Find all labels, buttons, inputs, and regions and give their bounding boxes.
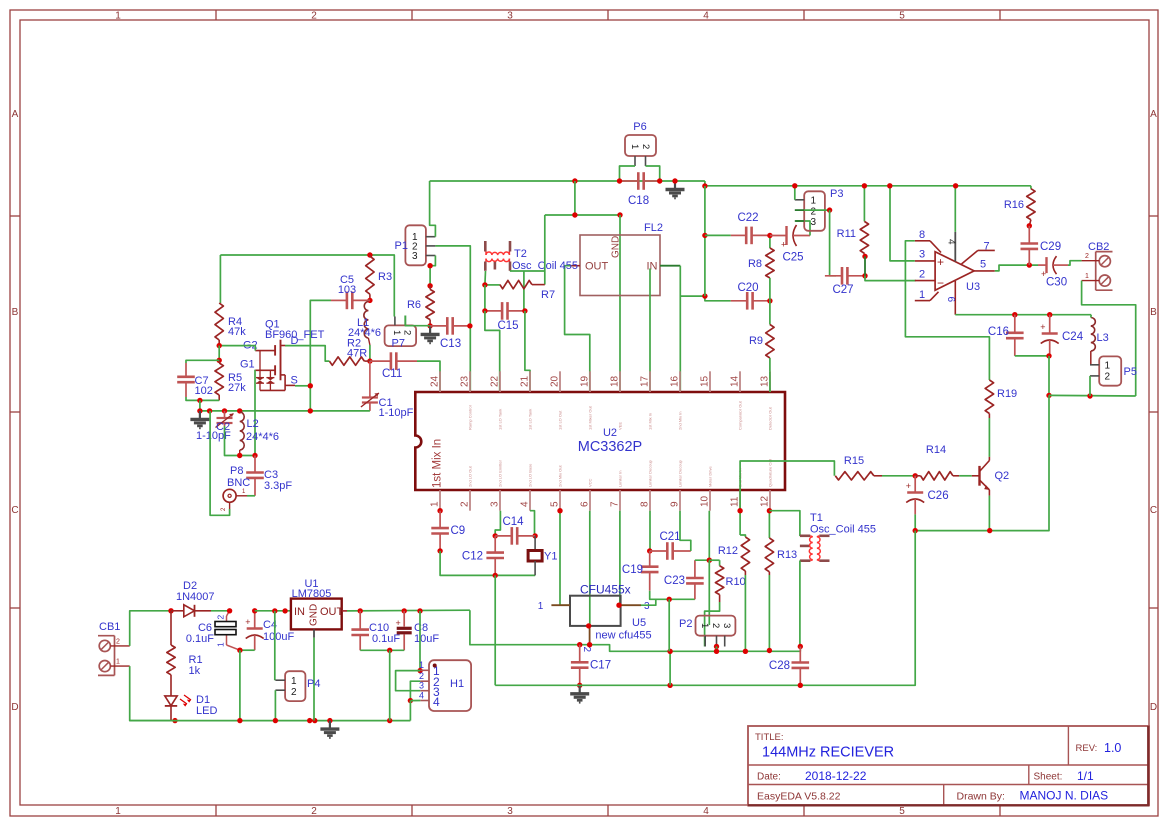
wire CB1 pin1 down to gnd rail [130, 666, 175, 721]
wire P8 shield loop [210, 411, 230, 515]
svg-text:U3: U3 [966, 281, 980, 293]
pin P1.1 [426, 236, 436, 238]
svg-text:3: 3 [412, 251, 418, 262]
wire pin6 to U5 pin2 [589, 511, 591, 626]
svg-text:1: 1 [538, 601, 544, 612]
svg-text:1st LO Tank: 1st LO Tank [498, 409, 503, 430]
svg-text:T1: T1 [810, 512, 823, 524]
resistor R19 [985, 380, 993, 414]
wire H1 gnd drop [409, 701, 411, 721]
junction C22 right / R8 top [767, 233, 772, 238]
filter U5 box [570, 596, 621, 626]
svg-text:2: 2 [291, 687, 297, 698]
svg-text:1: 1 [1105, 361, 1111, 372]
junction [572, 212, 577, 217]
svg-text:D: D [291, 335, 299, 347]
svg-text:20: 20 [550, 375, 561, 387]
pin P4.1 [275, 679, 285, 681]
wire R7 left to C15 left [484, 285, 486, 311]
wire R12 bottom [744, 575, 746, 651]
junction H1 pin1 [417, 668, 422, 673]
svg-text:4: 4 [946, 239, 957, 245]
pin CB1.1 [110, 665, 129, 667]
wire R13 bottom [768, 575, 770, 651]
svg-text:GND: GND [309, 604, 320, 626]
svg-text:Comparator Out: Comparator Out [738, 400, 743, 430]
svg-text:3.3pF: 3.3pF [264, 480, 292, 492]
wire U3 pin3 to rail [890, 186, 915, 261]
svg-text:144MHz RECIEVER: 144MHz RECIEVER [762, 745, 894, 761]
capacitor C11 [370, 360, 391, 362]
junction [572, 178, 577, 183]
pin P5.2 [1090, 375, 1099, 377]
IC U2 bottom pins [440, 490, 770, 511]
svg-text:C27: C27 [832, 284, 853, 296]
svg-text:C30: C30 [1046, 277, 1067, 289]
junction R1 top [168, 608, 173, 613]
resistor R15 [835, 472, 874, 480]
svg-text:CB2: CB2 [1088, 241, 1109, 253]
svg-text:B: B [12, 307, 19, 318]
svg-text:1st Mixer Out: 1st Mixer Out [588, 405, 593, 430]
transformer T2 [485, 241, 510, 271]
svg-text:47k: 47k [228, 326, 246, 338]
title block [748, 726, 1149, 806]
junction source [308, 383, 313, 388]
junction C3 top [252, 453, 257, 458]
connector P2 [696, 616, 736, 636]
capacitor C15 [485, 310, 502, 312]
capacitor C29 [1028, 226, 1030, 244]
svg-text:5: 5 [899, 806, 905, 817]
wire C16 bottom [1015, 355, 1049, 357]
wire FL2 GND drop to pin18 [619, 215, 621, 392]
junction pin12 [767, 508, 772, 513]
wire R9 bottom to pin13 [769, 371, 771, 392]
wire C5 left to source node [310, 300, 331, 411]
svg-text:2: 2 [402, 330, 413, 335]
wire pin12 to T1 [769, 511, 800, 536]
svg-text:5: 5 [550, 501, 561, 507]
ground at tank rail [199, 411, 201, 420]
crystal Y1 [534, 536, 536, 551]
wire U5 pin3 up to C19/C23 rail [641, 599, 656, 605]
wire C25 to P3 pin3 [796, 221, 810, 236]
svg-text:3: 3 [721, 623, 732, 628]
junction [273, 718, 278, 723]
svg-text:27k: 27k [228, 382, 246, 394]
junction C13 right [467, 323, 472, 328]
wire pin4 to C14 right [530, 511, 535, 536]
svg-text:D: D [1150, 702, 1157, 713]
connector P1 [405, 225, 426, 265]
svg-text:14: 14 [730, 375, 741, 387]
svg-text:Detector Out: Detector Out [768, 406, 773, 430]
wire Q2 emitter down [988, 496, 990, 531]
wire U3 pin6 rail [955, 314, 1091, 316]
junction [557, 508, 562, 513]
svg-text:1: 1 [391, 330, 402, 335]
svg-text:CFU455x: CFU455x [580, 583, 631, 597]
junction [308, 408, 313, 413]
wire P3 pin2 down to C27 [830, 210, 836, 276]
capacitor C14 [495, 535, 512, 537]
svg-text:8: 8 [640, 501, 651, 507]
svg-text:1: 1 [115, 806, 121, 817]
svg-text:R11: R11 [837, 228, 856, 240]
capacitor C26 electrolytic [914, 476, 916, 493]
pin P6.2 [645, 156, 647, 166]
ground below C17 [579, 685, 581, 694]
svg-text:LM7805: LM7805 [292, 588, 332, 600]
transistor Q2 [972, 457, 990, 496]
svg-text:FL2: FL2 [644, 222, 663, 234]
svg-text:R13: R13 [777, 549, 797, 561]
svg-text:C9: C9 [451, 525, 466, 537]
wire R11 bottom to C27 right [864, 256, 866, 275]
junction [617, 178, 622, 183]
op-amp U3 [915, 232, 995, 315]
wire main B+ rail top-right jog [705, 181, 1031, 186]
junction [222, 408, 227, 413]
svg-text:3: 3 [811, 217, 817, 228]
svg-text:−: − [937, 276, 944, 290]
capacitor C3 [254, 456, 256, 473]
svg-text:OUT: OUT [585, 261, 609, 273]
svg-text:D: D [11, 702, 18, 713]
IC U2 MC3362P body [415, 392, 785, 490]
junction [667, 597, 672, 602]
IC U2 top pins [440, 371, 770, 392]
junction [387, 718, 392, 723]
junction [358, 608, 363, 613]
LED D1 [170, 675, 172, 696]
svg-text:+: + [245, 617, 250, 627]
pin U1.OUT [342, 610, 347, 612]
junction U5 pin2 wire [587, 642, 592, 647]
junction [953, 183, 958, 188]
junction [327, 718, 332, 723]
svg-text:1-10pF: 1-10pF [196, 430, 231, 442]
svg-text:P2: P2 [679, 618, 692, 630]
wire C30 to CB2 pin2 [1068, 261, 1082, 265]
junction P2 pin2 [714, 644, 719, 649]
svg-text:1: 1 [699, 623, 710, 628]
junction [702, 293, 707, 298]
capacitor C28 [799, 647, 801, 663]
svg-text:2: 2 [919, 269, 925, 281]
resistor R2 [329, 357, 364, 365]
wire H1 pin2 to pin4 [410, 681, 420, 700]
wire U3 pin4 to rail [954, 186, 956, 232]
svg-text:18: 18 [610, 375, 621, 387]
pin P5.1 [1090, 364, 1099, 366]
wire H1 pin4 [410, 700, 420, 702]
wire to C22 [705, 234, 731, 236]
capacitor C23 [694, 560, 696, 578]
svg-text:P7: P7 [392, 338, 405, 350]
junction [312, 718, 317, 723]
inductor L3 [1091, 318, 1096, 352]
wire B+ from OUT [347, 609, 470, 612]
wire source [295, 385, 310, 387]
junction [617, 212, 622, 217]
wire FL2 IN to IC pin16 [679, 266, 681, 392]
svg-text:5: 5 [899, 11, 905, 22]
wire P3 pin2 through box [804, 209, 829, 211]
resistor R1 [170, 611, 172, 645]
junction L2 bottom [237, 453, 242, 458]
wire [646, 166, 660, 181]
svg-text:5: 5 [980, 259, 986, 271]
pin CB2.1 [1082, 280, 1100, 282]
wire gnd rail bottom [495, 684, 800, 686]
svg-text:U2: U2 [603, 427, 617, 439]
svg-text:21: 21 [520, 375, 531, 387]
pin P3.3 [795, 220, 804, 222]
svg-text:VCC: VCC [588, 478, 593, 487]
svg-text:C16: C16 [988, 326, 1009, 338]
junction H1 pin4 [408, 698, 413, 703]
wire T2 right to rail y215 [544, 215, 546, 285]
svg-text:C25: C25 [782, 252, 803, 264]
junction [987, 528, 992, 533]
wire C21 right to pin9 [680, 511, 691, 551]
svg-text:MC3362P: MC3362P [578, 439, 642, 455]
svg-text:C26: C26 [928, 490, 949, 502]
svg-text:+: + [906, 481, 911, 491]
svg-text:100uF: 100uF [263, 631, 294, 643]
svg-text:OUT: OUT [320, 606, 344, 618]
junction U5 pin2 [586, 623, 591, 628]
wire C15 left node to IC pin22 [485, 311, 500, 392]
transformer T1 [800, 536, 830, 561]
svg-text:0.1uF: 0.1uF [372, 633, 400, 645]
svg-text:C18: C18 [628, 195, 649, 207]
svg-text:C24: C24 [1062, 331, 1084, 343]
junction [672, 178, 677, 183]
pin H1.3 [420, 690, 429, 692]
pin P2.3 [724, 636, 726, 647]
svg-text:+: + [396, 618, 401, 628]
pin P1.2 [426, 245, 436, 247]
variable capacitor C1 [369, 361, 371, 395]
svg-text:3: 3 [919, 249, 925, 261]
wire U3 pin8 to R19 line [905, 241, 989, 380]
svg-text:0.1uF: 0.1uF [186, 633, 214, 645]
resistor R6 [429, 286, 431, 290]
svg-text:C14: C14 [502, 516, 524, 528]
diode D2 1N4007 [171, 610, 184, 612]
junction C6 bottom [237, 648, 242, 653]
wire main B+ rail top-left [430, 180, 705, 182]
resistor R10 [709, 559, 719, 561]
junction R6 bottom [427, 323, 432, 328]
wire to FL2 gnd rail [574, 181, 576, 215]
svg-text:R19: R19 [997, 388, 1017, 400]
connector P7 [385, 325, 417, 346]
wire H1 pin1 to pin3 loop [396, 671, 421, 691]
svg-text:4: 4 [703, 11, 709, 22]
svg-text:1: 1 [291, 676, 297, 687]
wire to U1 IN [255, 610, 291, 612]
svg-text:19: 19 [580, 375, 591, 387]
svg-text:Q2: Q2 [995, 470, 1010, 482]
junction C27 right [862, 273, 867, 278]
svg-text:A: A [12, 109, 19, 120]
pin U1.GND [313, 629, 315, 637]
capacitor C30 electrolytic [1038, 264, 1047, 266]
svg-text:U5: U5 [632, 617, 646, 629]
wire C26 bottom [914, 514, 916, 530]
wire C24 node down [1048, 356, 1050, 396]
wire [620, 166, 636, 181]
junction [743, 649, 748, 654]
svg-text:10uF: 10uF [414, 633, 439, 645]
junction [427, 263, 432, 268]
junction C24 top [1047, 312, 1052, 317]
svg-text:2nd LO Base: 2nd LO Base [528, 463, 533, 487]
svg-text:2: 2 [1105, 372, 1111, 383]
svg-text:2: 2 [216, 615, 226, 620]
svg-text:24: 24 [430, 375, 441, 387]
svg-text:Osc_Coil 455: Osc_Coil 455 [810, 524, 876, 536]
wire pin11 to R15 [740, 461, 834, 511]
junction [207, 408, 212, 413]
pin P2.2 [716, 636, 718, 647]
pin P3.1 [795, 199, 804, 201]
wire C12 bottom to gnd rail [494, 575, 496, 685]
svg-text:1: 1 [216, 642, 226, 647]
svg-text:3: 3 [507, 11, 513, 22]
wire P2 pins to rail [716, 647, 718, 652]
svg-text:R15: R15 [844, 455, 864, 467]
ground below R6 [429, 326, 431, 335]
junction U5 pin3 [616, 603, 621, 608]
wire rail to P3 pin1 [794, 186, 796, 200]
capacitor C19 [649, 551, 651, 567]
wire T1 bottom to C28 [799, 561, 801, 647]
svg-text:13: 13 [760, 375, 771, 387]
svg-text:1: 1 [919, 289, 925, 301]
wire B+ to H1 pin1 [419, 611, 421, 671]
junction [714, 649, 719, 654]
junction R2/C11/L1/C1 [367, 358, 372, 363]
junction C29 bottom [1027, 262, 1032, 267]
svg-text:2018-12-22: 2018-12-22 [805, 769, 867, 783]
wire R10 bottom to P2 pin1 [705, 602, 720, 647]
junction C20 right [767, 298, 772, 303]
svg-text:C: C [1150, 505, 1157, 516]
wire P7 pin2 to R6 bottom node [405, 316, 429, 326]
junction R11 bottom [862, 254, 867, 259]
svg-text:Limiter Decoup: Limiter Decoup [648, 459, 653, 487]
pin CB1.2 [110, 645, 129, 647]
junction [402, 608, 407, 613]
junction [482, 308, 487, 313]
svg-text:10: 10 [700, 495, 711, 507]
wire pin7 to U5 pin3 [619, 511, 621, 606]
svg-text:Sheet:: Sheet: [1034, 772, 1063, 783]
svg-text:C11: C11 [382, 368, 402, 380]
svg-text:Limiter In: Limiter In [618, 471, 623, 487]
connector P4 [285, 671, 305, 701]
svg-text:22: 22 [490, 375, 501, 387]
svg-text:B: B [1150, 307, 1157, 318]
pin H1.2 [420, 680, 429, 682]
svg-text:7: 7 [610, 501, 621, 507]
svg-text:3: 3 [507, 806, 513, 817]
pin P3.2 [795, 209, 804, 211]
capacitor C7 [185, 363, 187, 377]
svg-text:2: 2 [581, 647, 592, 653]
svg-text:2: 2 [640, 144, 651, 149]
svg-text:1st Mix In: 1st Mix In [648, 413, 653, 430]
junction C9 bottom [437, 548, 442, 553]
resistor R3 [369, 255, 371, 256]
svg-text:1.0: 1.0 [1104, 741, 1121, 755]
junction C22 left [702, 233, 707, 238]
svg-text:L3: L3 [1097, 332, 1109, 344]
pin FL2.IN [660, 265, 680, 267]
svg-text:Ramp Control: Ramp Control [468, 405, 473, 430]
svg-text:C20: C20 [737, 282, 758, 294]
junction [702, 183, 707, 188]
regulator U1 LM7805 [291, 599, 342, 630]
svg-text:3: 3 [490, 501, 501, 507]
resistor R9 [769, 301, 771, 325]
capacitor C27 [825, 275, 842, 277]
junction C17 top [577, 642, 582, 647]
capacitor C5 [331, 299, 347, 301]
connector P6 [625, 135, 656, 156]
svg-text:Quadrature Coil: Quadrature Coil [768, 459, 773, 487]
wire C15 right node to IC pin21 [525, 311, 530, 392]
wire C19 bottom rail [650, 591, 695, 600]
pin P8.2 [229, 502, 231, 509]
wire C23 top to pin10 [695, 511, 709, 561]
wire C3 bottom to P8 pin1 [247, 495, 255, 497]
svg-text:IN: IN [294, 606, 305, 618]
svg-text:11: 11 [730, 496, 741, 507]
svg-text:C13: C13 [440, 338, 461, 350]
wire U1 GND to rail [313, 638, 315, 721]
capacitor C25 electrolytic [770, 235, 787, 237]
svg-text:new cfu455: new cfu455 [595, 630, 651, 642]
pin CB2.2 [1082, 260, 1100, 262]
wire C7 bottom to R5 bottom [186, 397, 219, 400]
svg-text:1: 1 [419, 660, 424, 670]
wire C22 left branch [704, 186, 706, 296]
wire C27 node to U3 pin2 [865, 276, 916, 281]
wire P1 pin2 to IC pin23 [435, 246, 470, 392]
resistor R13 [768, 511, 770, 538]
ground near C18 [674, 181, 676, 190]
svg-text:R6: R6 [407, 299, 421, 311]
svg-text:C: C [11, 505, 18, 516]
pin U5.1 [551, 604, 570, 606]
wire C11 to IC pin24 [417, 361, 440, 392]
svg-text:P6: P6 [633, 121, 646, 133]
svg-text:TITLE:: TITLE: [755, 732, 784, 743]
svg-text:103: 103 [338, 284, 356, 296]
svg-text:R8: R8 [748, 258, 762, 270]
svg-text:2nd LO Out: 2nd LO Out [468, 465, 473, 487]
svg-text:15: 15 [700, 375, 711, 387]
junction C26 top [913, 473, 918, 478]
svg-text:1/1: 1/1 [1077, 769, 1094, 783]
junction P5 pin2 [1087, 393, 1092, 398]
